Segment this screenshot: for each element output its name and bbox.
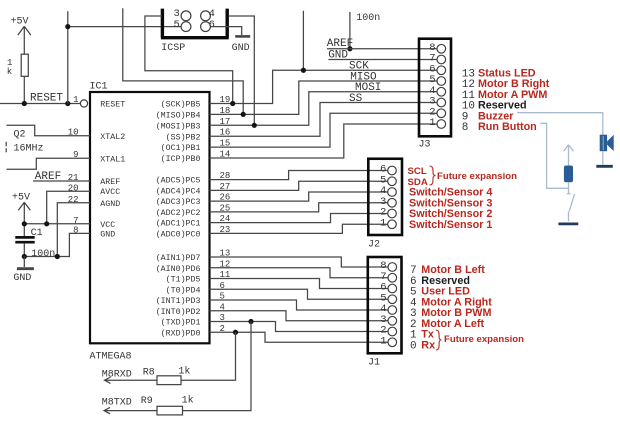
wire PB0 pin14 to J3 pin1 (210, 124, 438, 158)
ground ICSP (235, 35, 250, 38)
wire PB1 pin15 to J3 pin2 (210, 113, 438, 147)
wire run button (blue) (541, 123, 569, 188)
svg-text:1: 1 (429, 117, 435, 129)
wire PD4 pin6 to J1 pin5 (210, 289, 388, 299)
svg-text:(TXD)PD1: (TXD)PD1 (161, 318, 201, 328)
wire PD1 pin3 to J1 pin2 (210, 322, 388, 332)
svg-text:(T1)PD5: (T1)PD5 (166, 275, 201, 285)
J1 pin 3 (388, 316, 397, 325)
svg-text:1k: 1k (182, 395, 194, 407)
svg-text:SS: SS (349, 93, 363, 105)
ICSP pin 5 (181, 22, 191, 32)
wire SCK branch to ICSP pin3 (145, 16, 233, 104)
svg-text:J2: J2 (368, 240, 380, 251)
wire XTAL2 pin10 (7, 125, 91, 135)
ICSP pin 4 (201, 11, 211, 21)
ICSP pin 6 (201, 22, 211, 32)
svg-text:0: 0 (410, 340, 417, 352)
resistor R8 1k (102, 332, 236, 384)
capacitor C1 100n (15, 228, 55, 260)
junction C1/GND (22, 254, 27, 259)
J1 pin 7 (388, 273, 397, 282)
switch run button (567, 194, 575, 222)
svg-text:21: 21 (68, 173, 79, 183)
svg-text:AVCC: AVCC (100, 188, 120, 197)
wire PD6 pin12 to J1 pin7 (210, 268, 388, 278)
svg-text:Future expansion: Future expansion (437, 171, 517, 182)
annotations J1 (410, 264, 524, 352)
svg-text:7: 7 (73, 216, 78, 226)
connector J1 (368, 257, 402, 353)
svg-text:(ADC3)PC3: (ADC3)PC3 (156, 197, 201, 207)
svg-text:Run Button: Run Button (478, 121, 537, 133)
ground run button (558, 222, 578, 225)
svg-text:XTAL2: XTAL2 (100, 133, 125, 142)
J3 pin 5 (437, 77, 446, 86)
svg-text:(ADC1)PC1: (ADC1)PC1 (156, 219, 201, 229)
svg-text:(MISO)PB4: (MISO)PB4 (156, 111, 201, 121)
svg-text:GND: GND (13, 273, 31, 284)
svg-text:(T0)PD4: (T0)PD4 (166, 285, 201, 295)
wire PD7 pin13 to J1 pin8 (210, 257, 388, 267)
J2 pin 3 (388, 198, 397, 207)
J3 pin 6 (437, 66, 446, 75)
svg-text:10: 10 (68, 128, 79, 138)
svg-text:AGND: AGND (100, 200, 120, 209)
annotations J3 (462, 67, 550, 134)
J3 pin 4 (437, 87, 446, 96)
J2 pin 6 (388, 166, 397, 175)
svg-text:(SCK)PB5: (SCK)PB5 (161, 100, 201, 110)
svg-text:(ADC5)PC5: (ADC5)PC5 (156, 176, 201, 186)
svg-text:ATMEGA8: ATMEGA8 (90, 352, 132, 363)
wire VCC pin7 (24, 223, 90, 225)
svg-text:GND: GND (100, 230, 115, 239)
svg-text:IC1: IC1 (90, 82, 108, 93)
wire PD0 pin2 to J1 pin1 (210, 332, 388, 342)
svg-text:J1: J1 (368, 358, 380, 369)
wire MOSI branch to ICSP pin4 (229, 16, 255, 125)
supply +5V left (VCC) (12, 193, 30, 237)
svg-text:AREF: AREF (100, 178, 120, 187)
svg-text:(ADC4)PC4: (ADC4)PC4 (156, 187, 201, 197)
wire buzzer (blue) (517, 113, 603, 135)
node stub on SCK (302, 11, 304, 70)
svg-text:1: 1 (73, 95, 78, 105)
svg-text:+5V: +5V (11, 17, 29, 28)
svg-text:R9: R9 (141, 396, 153, 407)
wire XTAL1 pin9 (7, 158, 91, 169)
speaker buzzer (600, 135, 614, 165)
svg-text:1: 1 (380, 335, 386, 347)
J1 pin 8 (388, 263, 397, 272)
pin 1 RESET bubble (80, 100, 87, 107)
svg-text:(ADC2)PC2: (ADC2)PC2 (156, 208, 201, 218)
resistor R9 1k (102, 322, 251, 415)
junction AGND/GND (55, 254, 60, 259)
wire AGND pin22 (57, 203, 90, 257)
svg-text:(OC1)PB1: (OC1)PB1 (161, 143, 201, 153)
J3 pin 8 (437, 44, 446, 53)
crystal Q2 16MHz (6, 129, 43, 154)
svg-text:22: 22 (68, 195, 79, 205)
wire ICSP pin6 to ground (211, 27, 242, 35)
svg-text:(ADC0)PC0: (ADC0)PC0 (156, 230, 201, 240)
junction on RESET at resistor (22, 101, 27, 106)
resistor pull-up (blue) (564, 166, 573, 183)
svg-text:VCC: VCC (100, 221, 115, 230)
J2 pin 4 (388, 188, 397, 197)
J2 pin 5 (388, 177, 397, 186)
J3 pin 7 (437, 55, 446, 64)
wire PB4 pin18 to J3 pin5 MISO (210, 81, 438, 114)
svg-text:(MOSI)PB3: (MOSI)PB3 (156, 121, 201, 131)
annotations J2 (408, 166, 518, 231)
svg-text:ICSP: ICSP (161, 43, 185, 54)
svg-text:M8TXD: M8TXD (102, 398, 132, 409)
capacitor 100n stub top (349, 12, 351, 49)
wire RESET horizontal (0, 103, 80, 105)
IC right pin names (156, 100, 201, 339)
svg-text:+5V: +5V (12, 193, 30, 204)
svg-text:(ICP)PB0: (ICP)PB0 (161, 154, 201, 164)
J1 pin 2 (388, 327, 397, 336)
svg-text:(SS)PB2: (SS)PB2 (166, 132, 201, 142)
svg-text:1: 1 (380, 217, 386, 229)
wire PD5 pin11 to J1 pin6 (210, 279, 388, 289)
J1 pin 5 (388, 295, 397, 304)
ICSP pin 3 (181, 11, 191, 21)
junction on RESET at vertical to ICSP (65, 101, 70, 106)
wire PC2 pin25 to J2 pin3 (210, 203, 388, 212)
wire PB2 pin16 to J3 pin3 SS (210, 103, 438, 137)
wire GND pin8 (24, 233, 90, 256)
svg-text:(INT0)PD2: (INT0)PD2 (156, 307, 201, 317)
J1 pin 6 (388, 284, 397, 293)
J2 pin 1 (388, 220, 397, 229)
wire PB5 pin19 to J3 pin6 SCK (210, 70, 438, 103)
junction +5V/VCC (22, 221, 27, 226)
wire PC1 pin24 to J2 pin2 (210, 214, 388, 223)
svg-text:AREF: AREF (327, 38, 353, 50)
wire MISO branch to ICSP (123, 8, 243, 114)
brace future expansion J1 (436, 330, 442, 350)
brace future expansion J2 (430, 166, 436, 185)
supply +5V top-left (11, 17, 31, 55)
resistor R1 1k pull-up (7, 54, 29, 103)
wire vertical RESET to ICSP pin5 (68, 11, 181, 103)
svg-text:RESET: RESET (100, 101, 125, 110)
svg-text:GND: GND (232, 43, 250, 54)
svg-text:5: 5 (173, 19, 179, 31)
wire resistor to switch (568, 182, 570, 193)
svg-text:R8: R8 (143, 368, 155, 379)
wire PC0 pin23 to J2 pin1 (210, 224, 388, 233)
junction AVCC branch (44, 221, 49, 226)
svg-text:Rx: Rx (421, 339, 435, 351)
wire PD3 pin5 to J1 pin4 (210, 300, 388, 310)
wire PC3 pin26 to J2 pin4 (210, 192, 388, 201)
svg-text:k: k (7, 67, 12, 77)
svg-text:Q2: Q2 (14, 129, 26, 140)
ground speaker (596, 165, 613, 168)
svg-text:Switch/Sensor 1: Switch/Sensor 1 (409, 219, 492, 231)
IC right pin numbers (220, 95, 231, 334)
connector ICSP bracket (161, 9, 229, 38)
J2 pin 2 (388, 209, 397, 218)
wire PC4 pin27 to J2 pin5 (210, 181, 388, 190)
supply arrow (blue) (564, 145, 574, 166)
connector J2 (368, 159, 402, 235)
svg-text:16MHz: 16MHz (14, 144, 44, 155)
IC1 ATMEGA8 box (90, 92, 210, 343)
J1 pin 1 (388, 338, 397, 347)
connector J3 (419, 39, 451, 137)
junction at ICSP RESET branch (65, 24, 70, 29)
svg-text:SCL: SCL (408, 166, 427, 177)
J3 pin 3 (437, 98, 446, 107)
wire PB3 pin17 to J3 pin4 MOSI (210, 92, 438, 126)
svg-text:8: 8 (462, 122, 469, 134)
wire AVCC pin20 from +5V (47, 191, 90, 224)
wire PD2 pin4 to J1 pin3 (210, 311, 388, 321)
svg-text:(RXD)PD0: (RXD)PD0 (161, 328, 201, 338)
svg-text:(AIN0)PD6: (AIN0)PD6 (156, 264, 201, 274)
J1 pin 4 (388, 306, 397, 315)
J3 pin 2 (437, 109, 446, 118)
ground GND left (13, 257, 34, 284)
wire PC5 pin28 to J2 pin6 (210, 171, 388, 180)
svg-text:Future expansion: Future expansion (444, 334, 524, 345)
svg-text:(INT1)PD3: (INT1)PD3 (156, 296, 201, 306)
svg-text:RESET: RESET (30, 93, 63, 105)
svg-text:100n: 100n (31, 249, 55, 260)
svg-text:J3: J3 (419, 140, 431, 151)
svg-text:(AIN1)PD7: (AIN1)PD7 (156, 253, 201, 263)
svg-text:6: 6 (209, 19, 215, 31)
J3 pin 1 (437, 120, 446, 129)
svg-text:8: 8 (73, 226, 78, 236)
svg-text:20: 20 (68, 183, 79, 193)
svg-text:100n: 100n (356, 13, 380, 24)
svg-text:XTAL1: XTAL1 (100, 155, 125, 164)
svg-text:9: 9 (73, 150, 78, 160)
